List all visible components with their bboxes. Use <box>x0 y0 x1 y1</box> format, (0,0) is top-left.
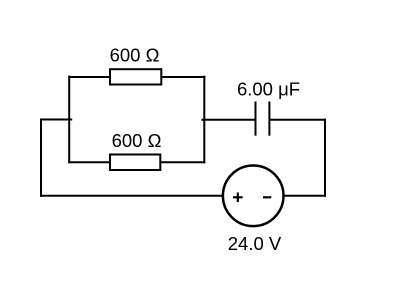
wire: left inner vertical joining branches <box>68 76 70 164</box>
wire: right inner vertical joining branches <box>203 76 205 164</box>
svg-text:24.0 V: 24.0 V <box>228 233 282 254</box>
svg-text:600 Ω: 600 Ω <box>112 130 162 151</box>
wire: bottom branch right segment <box>160 161 205 163</box>
resistor R2 (bottom 600 ohm box) <box>110 155 160 171</box>
resistor R1 (top 600 ohm box) <box>110 69 161 84</box>
wire: capacitor to right corner <box>269 119 326 121</box>
V1 plus sign <box>233 196 243 198</box>
capacitor C1 right plate <box>268 102 270 136</box>
V1 minus sign <box>263 196 271 198</box>
wire: top branch right segment <box>161 76 206 78</box>
svg-text:6.00 μF: 6.00 μF <box>237 78 300 99</box>
svg-text:600 Ω: 600 Ω <box>110 45 160 66</box>
wire: far-left outer vertical <box>40 119 42 197</box>
capacitor C1 left plate <box>255 102 257 136</box>
wire: bottom horizontal left (to source) <box>40 195 224 197</box>
wire: mid-left stub from outer loop to node <box>40 119 72 121</box>
wire: bottom horizontal right (source to right corner) <box>283 195 326 197</box>
voltage source V1 circle <box>223 166 284 227</box>
wire: right outer vertical <box>324 119 326 197</box>
wire: bottom branch left segment <box>68 161 111 163</box>
wire: top branch left segment <box>68 76 111 78</box>
wire: mid horizontal from right node to capacitor <box>202 119 256 121</box>
